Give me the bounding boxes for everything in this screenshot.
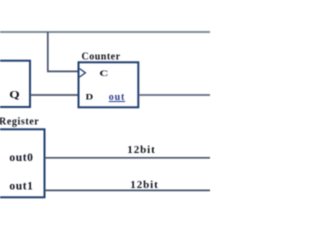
svg-text:12bit: 12bit [127,144,155,156]
clock input triangle [80,69,86,77]
svg-text:out: out [109,92,125,103]
wire out0 bus [45,157,211,159]
flip-flop box (Q, cut off at left) [0,61,30,107]
svg-text:Register: Register [0,117,39,128]
svg-text:out1: out1 [9,180,33,192]
wire clock top horizontal [0,31,210,33]
svg-text:Q: Q [9,88,19,101]
wire counter out [140,94,211,96]
svg-text:D: D [86,92,94,102]
wire clock to counter C input [47,70,78,72]
counter box [79,62,139,107]
register box (cut off at left) [0,129,45,197]
wire out1 bus [45,189,211,191]
wire Q to D [30,94,78,96]
svg-text:out0: out0 [9,152,33,164]
wire clock vertical drop [47,32,49,71]
svg-text:C: C [99,70,108,79]
svg-text:12bit: 12bit [130,179,158,191]
svg-text:Counter: Counter [82,51,121,62]
